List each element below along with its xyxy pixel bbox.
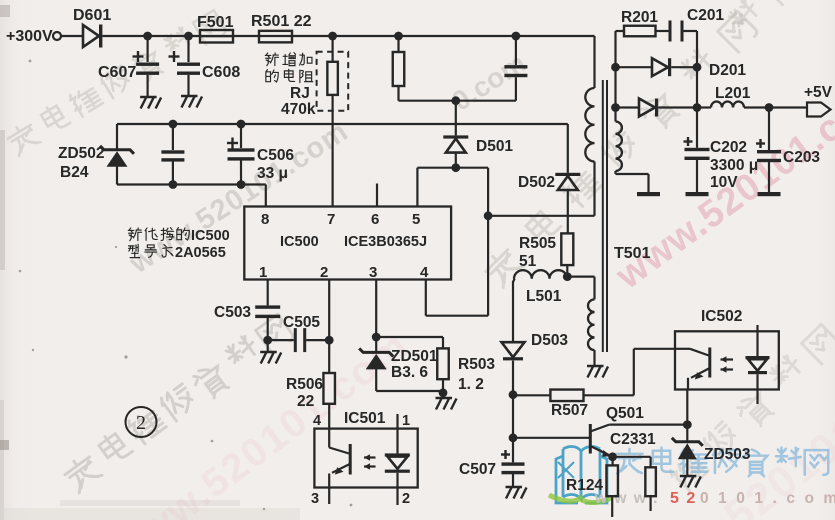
svg-text:R505: R505 <box>519 235 556 252</box>
svg-text:D502: D502 <box>518 174 555 191</box>
svg-text:2A0565: 2A0565 <box>175 245 226 261</box>
wire pin3 down <box>375 280 377 338</box>
transistor inside IC502 <box>675 348 690 350</box>
node rail2 C506 junction <box>237 180 246 189</box>
watermark gray url top-right <box>446 47 531 117</box>
watermark gray text left-middle <box>62 452 103 493</box>
svg-text:ICE3B0365J: ICE3B0365J <box>344 234 427 250</box>
svg-text:C503: C503 <box>214 304 251 321</box>
node rail C506 junction <box>237 120 246 129</box>
wire L501 to D503 <box>513 279 515 282</box>
wire C201 down <box>696 31 698 108</box>
svg-text:10V: 10V <box>710 174 738 191</box>
wire snubber bottom <box>399 100 516 102</box>
svg-text:2: 2 <box>136 412 146 434</box>
svg-text:ZD503: ZD503 <box>704 446 751 463</box>
wire VCC rail <box>117 123 568 125</box>
svg-text:5 2: 5 2 <box>670 490 697 507</box>
svg-text:470k: 470k <box>281 101 316 118</box>
svg-text:w w w .: w w w . <box>594 490 659 507</box>
svg-text:+5V: +5V <box>804 84 833 101</box>
node D201b anode <box>611 103 620 112</box>
diode D201 lower <box>616 106 640 108</box>
wire D501 to pin5 <box>417 167 455 169</box>
svg-text:8: 8 <box>261 211 269 228</box>
wire pin2 down <box>328 280 330 374</box>
svg-text:5: 5 <box>412 211 420 228</box>
node D501 anode junction <box>451 163 460 172</box>
svg-text:R506: R506 <box>286 376 323 393</box>
label new added resistor RJ 470k <box>265 53 278 66</box>
svg-text:T501: T501 <box>614 245 651 262</box>
op-amp IC500 ICE3B0365J box <box>244 207 451 280</box>
wire Q501 collector to ZD503 <box>609 424 687 426</box>
wire pin6 stub <box>376 184 378 207</box>
wire pin3 to R503 <box>376 336 443 338</box>
svg-text:33 μ: 33 μ <box>257 165 288 182</box>
node circled 2 page marker <box>126 407 157 437</box>
svg-text:R501 22: R501 22 <box>251 13 312 30</box>
svg-text:L201: L201 <box>715 85 751 102</box>
resistor unlabeled <box>645 467 656 496</box>
svg-text:4: 4 <box>420 264 429 281</box>
svg-text:2: 2 <box>320 264 328 281</box>
node C608 junction <box>184 32 193 41</box>
svg-text:ZD502: ZD502 <box>58 145 105 162</box>
svg-text:C608: C608 <box>202 64 240 81</box>
node rail cap junction <box>169 120 178 129</box>
node D201a anode <box>611 63 620 72</box>
node Q501 emitter junction <box>608 452 617 461</box>
ground aux winding <box>587 365 604 367</box>
wire feedback vertical <box>512 395 514 438</box>
svg-text:+300V: +300V <box>6 28 53 45</box>
svg-text:1: 1 <box>259 264 267 281</box>
watermark blue brand text <box>616 449 642 474</box>
svg-text:R124: R124 <box>566 477 603 494</box>
node R503 bottom junction <box>439 388 448 397</box>
resistor RJ 470k added resistor (dashed box) <box>317 52 349 111</box>
node primary bottom junction <box>484 211 493 220</box>
svg-text:0 1 0 1 . c o m: 0 1 0 1 . c o m <box>700 490 835 507</box>
LED inside IC502 <box>756 325 758 356</box>
wire rail bottom to pin8 <box>117 183 266 185</box>
svg-text:7: 7 <box>327 211 335 228</box>
node pin3 junction <box>372 333 381 342</box>
svg-text:R201: R201 <box>621 9 658 26</box>
transformer T501 aux winding <box>588 299 595 350</box>
node L201 C203 junction <box>765 103 774 112</box>
watermark gray text bottom-right-diagonal <box>668 452 710 494</box>
node rail2 cap junction <box>169 180 178 189</box>
svg-text:IC500: IC500 <box>280 234 319 250</box>
node D201b cathode <box>693 103 702 112</box>
node C503 bottom junction <box>263 336 272 345</box>
svg-text:B3. 6: B3. 6 <box>391 364 428 381</box>
node pin2 C505 junction <box>325 336 334 345</box>
svg-text:3: 3 <box>311 491 319 507</box>
wire drain to IC500 pin 4 <box>426 315 488 317</box>
transistor inside IC501 <box>328 429 330 448</box>
light arrows IC502 <box>721 358 734 360</box>
node D201a cathode <box>693 63 702 72</box>
svg-text:3: 3 <box>369 264 377 281</box>
wire IC502 emitter down <box>686 390 688 425</box>
wire emitter to resistor 2 <box>613 456 651 458</box>
svg-text:C507: C507 <box>459 461 496 478</box>
svg-text:C202: C202 <box>710 139 747 156</box>
ground C608 <box>181 95 198 97</box>
watermark pink url diagonal bottom-left <box>104 323 417 520</box>
node snubber resistor top <box>394 32 403 41</box>
capacitor rail filter <box>172 124 174 150</box>
resistor snubber <box>397 36 399 52</box>
watermark logo book <box>556 447 607 503</box>
wire primary bottom to drain <box>488 215 594 217</box>
transformer T501 secondary winding <box>614 108 616 122</box>
svg-text:51: 51 <box>519 253 537 270</box>
ground secondary bar <box>637 192 660 196</box>
svg-text:D201: D201 <box>709 62 746 79</box>
light arrows IC501 <box>364 456 376 458</box>
svg-text:22: 22 <box>297 393 314 410</box>
svg-text:C203: C203 <box>783 149 820 166</box>
svg-text:RJ: RJ <box>290 85 310 102</box>
wire D501 to drain rail <box>456 167 488 169</box>
ground C607 <box>140 96 157 98</box>
wire +300V to D601 <box>61 35 83 37</box>
svg-text:IC501: IC501 <box>344 410 386 427</box>
watermark pink url diagonal top-right <box>608 71 835 298</box>
svg-text:R507: R507 <box>551 402 588 419</box>
svg-text:D501: D501 <box>476 138 513 155</box>
svg-text:Q501: Q501 <box>606 405 644 422</box>
svg-text:C505: C505 <box>283 314 320 331</box>
svg-text:6: 6 <box>371 211 379 228</box>
svg-text:L501: L501 <box>526 288 562 305</box>
watermark gray url upper-center <box>124 115 355 280</box>
ground ZD503 <box>680 475 697 477</box>
svg-text:1. 2: 1. 2 <box>458 376 484 393</box>
node Q501 base junction <box>509 433 518 442</box>
LED inside IC501 <box>396 414 398 453</box>
node snubber cap top <box>512 32 521 41</box>
svg-text:C201: C201 <box>687 7 724 24</box>
watermark logo green swoosh <box>549 495 611 503</box>
svg-text:IC500: IC500 <box>191 228 230 244</box>
ground C503 <box>260 351 277 353</box>
node D503 R507 junction <box>509 390 518 399</box>
watermark gray text top-left <box>5 120 41 156</box>
svg-text:C506: C506 <box>257 147 294 164</box>
wire secondary top to R201 <box>614 31 616 108</box>
node D501 top junction <box>451 96 460 105</box>
watermark pink url diagonal bottom-right <box>618 406 835 520</box>
wire pin1 to C503 <box>267 280 269 306</box>
svg-text:1: 1 <box>402 413 410 429</box>
svg-text:D503: D503 <box>531 332 568 349</box>
node R505 L501 junction <box>563 272 572 281</box>
transformer T501 primary winding <box>593 36 595 88</box>
wire L501 node to aux winding <box>567 276 594 278</box>
svg-text:2: 2 <box>402 491 410 507</box>
label replacement IC500 type 2A0565 <box>128 228 141 241</box>
svg-text:C2331: C2331 <box>610 431 656 448</box>
capacitor snubber <box>515 36 517 65</box>
wire main +300V line <box>102 35 594 37</box>
node ZD503 junction <box>683 420 692 429</box>
watermark gray text right-diagonal <box>482 245 525 288</box>
svg-text:4: 4 <box>313 413 321 429</box>
ground C203 bar <box>758 192 781 196</box>
svg-text:F501: F501 <box>197 14 234 31</box>
node RJ top junction <box>328 32 337 41</box>
ground C202 bar <box>686 192 709 196</box>
wire RJ to IC500 pin 7 <box>332 36 334 62</box>
ground C507 <box>506 486 523 488</box>
svg-text:C607: C607 <box>98 64 136 81</box>
ground R503 <box>436 397 453 399</box>
node C607 junction <box>143 32 152 41</box>
svg-text:3300 μ: 3300 μ <box>710 157 758 174</box>
svg-text:ZD501: ZD501 <box>391 348 438 365</box>
wire R507 up to IC502 <box>633 349 635 396</box>
svg-text:B24: B24 <box>60 164 89 181</box>
svg-text:D601: D601 <box>73 7 111 24</box>
svg-text:R503: R503 <box>458 356 495 373</box>
svg-text:IC502: IC502 <box>701 308 742 325</box>
